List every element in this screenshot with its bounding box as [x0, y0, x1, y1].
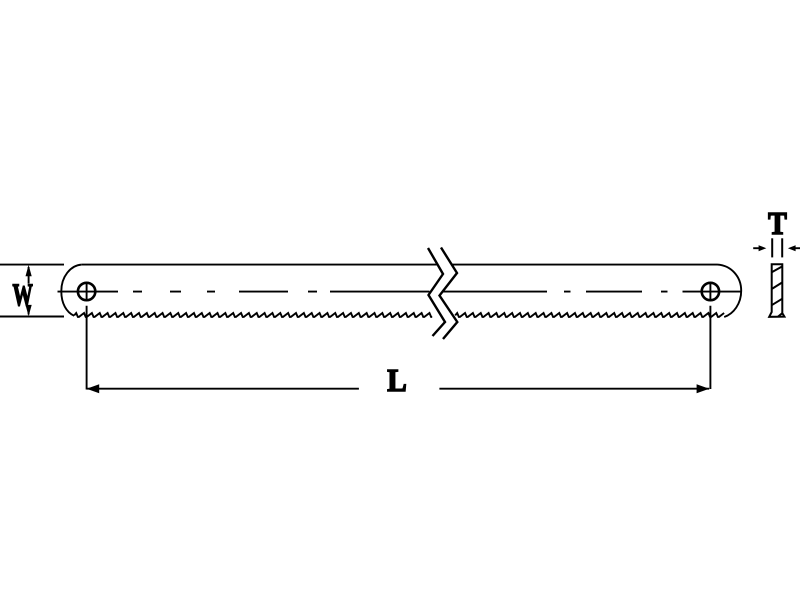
- T left extension line: [771, 238, 773, 257]
- svg-text:T: T: [768, 205, 787, 241]
- blade teeth left segment: [74, 313, 432, 317]
- extension line from right hole down to L dimension: [709, 282, 711, 389]
- T right extension line: [781, 238, 783, 257]
- extension line from left hole down to L dimension: [86, 282, 88, 389]
- break symbol left zigzag: [428, 248, 445, 336]
- dimension W arrow down: [26, 305, 32, 316]
- centerline left dashed: [133, 291, 430, 293]
- blade left rounded end: [61, 265, 81, 316]
- svg-text:L: L: [387, 362, 407, 398]
- T right arrow: [788, 245, 800, 251]
- T left arrow: [753, 245, 766, 251]
- dimension L line right segment with arrow: [439, 384, 709, 393]
- dimension L line left segment with arrow: [87, 384, 359, 393]
- blade right rounded end: [718, 265, 742, 317]
- centerline left solid through hole: [58, 291, 119, 293]
- wire W bottom extension line: [0, 316, 64, 318]
- centerline right solid through hole: [683, 291, 742, 293]
- break symbol right zigzag: [440, 248, 458, 340]
- cross-section hatch lines: [772, 266, 783, 316]
- blade top edge left segment: [82, 264, 437, 266]
- hole left: [78, 283, 95, 300]
- blade cross-section outline: [769, 264, 784, 317]
- wire W top extension line: [0, 264, 64, 266]
- centerline right dashed: [443, 291, 668, 293]
- hole right: [702, 283, 719, 300]
- blade teeth right segment: [455, 313, 724, 317]
- svg-text:W: W: [13, 277, 33, 313]
- dimension W arrow up: [26, 265, 32, 284]
- blade top edge right segment: [452, 264, 718, 266]
